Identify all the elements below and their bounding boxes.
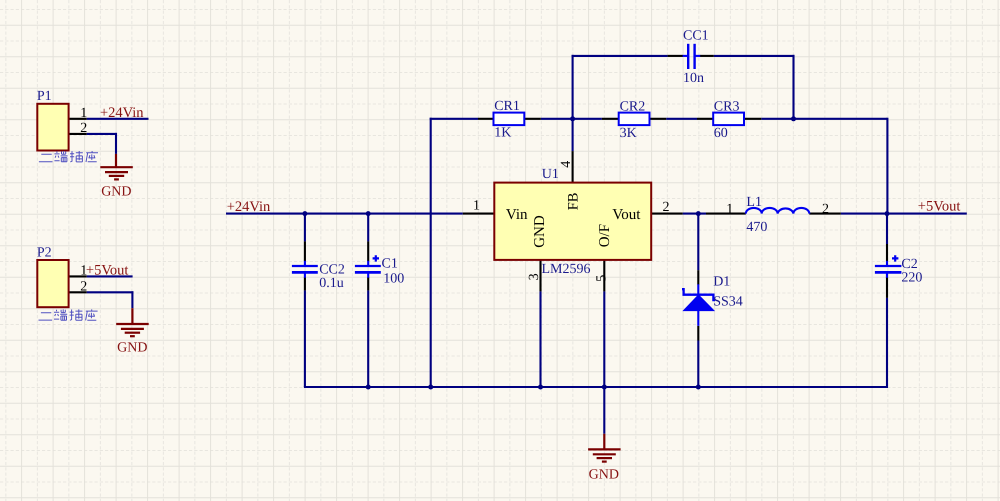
svg-text:3: 3: [527, 273, 542, 280]
svg-text:U1: U1: [542, 167, 559, 182]
capacitor C1 plates: [355, 255, 381, 278]
wire CC1 left vertical: [572, 55, 574, 119]
wire pin4 stub: [572, 151, 574, 183]
inductor L1: [746, 208, 810, 214]
capacitor CC2 plates: [292, 261, 318, 278]
svg-text:CR1: CR1: [494, 99, 520, 114]
svg-text:L1: L1: [746, 195, 762, 210]
wire CR1 vertical to ground rail: [430, 118, 432, 387]
wire CC1 right stub: [700, 55, 714, 57]
wire CR2 right stub: [650, 118, 667, 120]
wire CC1 right vertical: [792, 55, 794, 119]
wire P2 pin1: [87, 275, 133, 277]
capacitor C2 plates: [875, 255, 902, 278]
diode D1 SS34 schottky: [682, 284, 715, 326]
wire GND drop: [603, 387, 605, 434]
wire U1 out to L1: [683, 213, 706, 215]
wire CR1 left stub: [478, 118, 494, 120]
svg-text:100: 100: [383, 272, 404, 287]
wire CC2 branch top: [304, 212, 306, 241]
wire C1 branch bottom: [367, 290, 369, 387]
wire D1 top: [697, 214, 699, 271]
wire pin1 stub U1: [463, 213, 495, 215]
svg-text:1: 1: [80, 264, 87, 279]
svg-text:1K: 1K: [494, 125, 511, 140]
svg-text:2: 2: [663, 200, 670, 215]
svg-text:2: 2: [822, 202, 829, 217]
wire ground rail: [304, 386, 888, 388]
svg-text:0.1u: 0.1u: [319, 276, 344, 291]
junction FB node: [570, 116, 575, 121]
wire CR3 right stub: [745, 118, 762, 120]
wire C1 upper stub: [367, 241, 369, 261]
wire CC1 left stub: [668, 55, 683, 57]
junction C1 / rail: [366, 211, 371, 216]
wire CC2 lower stub: [304, 277, 306, 290]
svg-text:Vout: Vout: [612, 207, 641, 223]
wire FB row left: [430, 118, 478, 120]
wire P1 pin2 stub: [69, 133, 87, 135]
svg-text:2: 2: [80, 280, 87, 295]
svg-text:GND: GND: [101, 185, 131, 200]
comment text 二端插座 P2 (hand-drawn glyphs): [39, 309, 98, 320]
wire P2 pin1 stub: [69, 275, 87, 277]
svg-text:SS34: SS34: [713, 295, 743, 310]
wire +24Vin main rail: [226, 213, 463, 215]
wire L1 to +5Vout: [841, 213, 967, 215]
wire C2 top: [886, 213, 888, 244]
wire CC2 upper stub: [304, 241, 306, 261]
svg-text:CR2: CR2: [620, 100, 646, 115]
svg-text:+24Vin: +24Vin: [100, 105, 144, 121]
wire L1 pin2 stub: [809, 213, 841, 215]
svg-text:+24Vin: +24Vin: [227, 199, 271, 215]
wire pin5 to ground rail: [603, 291, 605, 387]
junction C2 / rail: [885, 211, 890, 216]
wire P1 pin2 vertical: [115, 133, 117, 154]
junction CR1 / ground rail: [428, 385, 433, 390]
wire C2 to ground rail: [886, 298, 888, 388]
svg-text:+5Vout: +5Vout: [918, 199, 961, 215]
svg-text:LM2596: LM2596: [542, 262, 591, 277]
wire C2 upper stub: [886, 244, 888, 261]
wire CR1 right stub: [524, 118, 541, 120]
svg-text:GND: GND: [532, 215, 548, 248]
wire pin3 stub: [539, 260, 541, 292]
wire D1 cathode stub: [697, 270, 699, 284]
svg-text:2: 2: [80, 121, 87, 136]
junction D1 / ground rail: [696, 385, 701, 390]
wire P1 pin1 stub: [69, 118, 87, 120]
resistor CR2: [619, 113, 650, 126]
wire CC2 branch bottom: [304, 290, 306, 387]
svg-text:C1: C1: [382, 257, 398, 272]
ground symbol bottom: [588, 434, 621, 462]
connector P2: [37, 260, 68, 307]
wire right feedback drop: [886, 118, 888, 213]
svg-text:10n: 10n: [683, 71, 704, 86]
svg-text:O/F: O/F: [597, 224, 613, 247]
ground symbol P2: [116, 308, 149, 336]
wire pin2 stub U1: [651, 213, 683, 215]
wire L1 pin1 stub: [706, 213, 746, 215]
wire C2 mid: [886, 273, 888, 278]
wire CR2 left stub: [602, 118, 619, 120]
svg-text:5: 5: [594, 275, 609, 282]
junction CC2 / rail: [302, 211, 307, 216]
wire P1 pin2 horizontal: [87, 133, 117, 135]
svg-text:470: 470: [746, 220, 767, 235]
wire FB row CR2-CR3: [666, 118, 697, 120]
svg-text:+5Vout: +5Vout: [86, 263, 129, 279]
svg-text:GND: GND: [117, 341, 147, 356]
wire pin3 to ground rail: [539, 291, 541, 387]
svg-text:GND: GND: [589, 468, 619, 483]
wire C1 branch top: [367, 212, 369, 241]
svg-text:3K: 3K: [620, 126, 637, 141]
svg-text:1: 1: [80, 106, 87, 121]
svg-text:P2: P2: [37, 246, 52, 261]
wire P1 pin1: [87, 118, 149, 120]
wire FB row CR3-right: [761, 118, 887, 120]
wire P2 pin2 stub: [69, 291, 87, 293]
wire D1 anode stub: [697, 326, 699, 341]
svg-text:FB: FB: [565, 193, 581, 211]
junction C1 / ground rail: [366, 385, 371, 390]
connector P1: [37, 104, 68, 151]
ground symbol P1: [100, 154, 133, 180]
wire P2 pin2 horizontal: [87, 291, 134, 293]
svg-text:220: 220: [901, 270, 922, 285]
wire CC1 top left: [572, 55, 668, 57]
junction D1 / rail: [696, 211, 701, 216]
wire pin4 upper: [572, 119, 574, 151]
wire CC1 top right: [714, 55, 795, 57]
svg-text:D1: D1: [713, 275, 730, 290]
svg-text:CR3: CR3: [714, 100, 740, 115]
wire pin5 stub: [603, 260, 605, 292]
svg-text:1: 1: [473, 198, 480, 213]
svg-text:Vin: Vin: [506, 207, 528, 223]
junction pin5 GND / ground rail: [602, 385, 607, 390]
wire C1 lower stub: [367, 277, 369, 290]
junction CC1 right: [791, 116, 796, 121]
svg-text:60: 60: [714, 126, 728, 141]
wire C2 lower stub: [886, 277, 888, 298]
svg-text:P1: P1: [37, 89, 52, 104]
op-amp U1 body LM2596: [494, 183, 651, 260]
resistor CR3: [713, 113, 744, 126]
wire D1 to ground rail: [697, 341, 699, 388]
svg-text:CC1: CC1: [683, 28, 709, 43]
wire CR3 left stub: [697, 118, 713, 120]
svg-text:1: 1: [726, 202, 733, 217]
capacitor CC1 plates: [683, 44, 701, 69]
svg-text:4: 4: [559, 161, 574, 168]
junction pin3 / ground rail: [538, 385, 543, 390]
comment text 二端插座 P1 (hand-drawn glyphs): [39, 151, 98, 162]
resistor CR1: [494, 113, 525, 126]
wire P2 pin2 vertical: [131, 291, 133, 308]
wire FB row CR1-CR2: [541, 118, 602, 120]
